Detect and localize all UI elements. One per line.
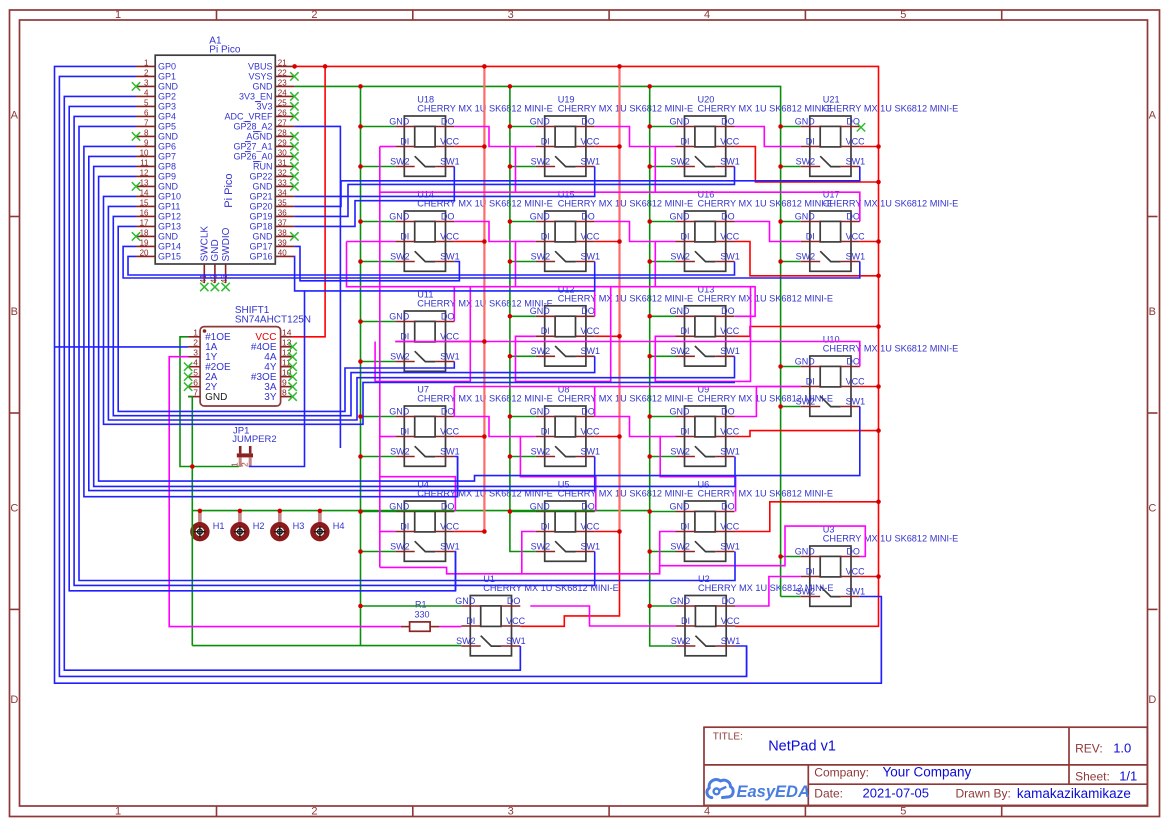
svg-text:4: 4 bbox=[193, 357, 198, 367]
svg-text:DI: DI bbox=[806, 136, 815, 146]
svg-text:TITLE:: TITLE: bbox=[713, 731, 743, 742]
wire VCC pale trunk 2 bbox=[618, 66, 620, 531]
svg-text:DI: DI bbox=[400, 426, 409, 436]
svg-text:GP4: GP4 bbox=[158, 112, 176, 122]
svg-text:GND: GND bbox=[795, 211, 816, 221]
svg-text:5: 5 bbox=[900, 806, 906, 818]
svg-text:GND: GND bbox=[530, 306, 551, 316]
svg-text:SW1: SW1 bbox=[440, 251, 460, 261]
svg-text:3: 3 bbox=[193, 347, 198, 357]
svg-text:GND: GND bbox=[158, 182, 179, 192]
svg-text:SWCLK: SWCLK bbox=[200, 226, 211, 262]
wire data U18 DI entry bbox=[380, 146, 396, 148]
svg-text:23: 23 bbox=[278, 79, 287, 88]
wire GP18 to U18 SW1 bbox=[294, 167, 454, 227]
svg-text:GND: GND bbox=[670, 116, 691, 126]
svg-text:DO: DO bbox=[722, 596, 736, 606]
svg-text:SW1: SW1 bbox=[440, 156, 460, 166]
wire VCC U6 to right trunk bbox=[735, 502, 879, 532]
switch unit U14 CHERRY MX 1U SK6812 MINI-E bbox=[389, 190, 552, 272]
switch unit U10 CHERRY MX 1U SK6812 MINI-E bbox=[795, 335, 958, 417]
wire GND stubs to switch GND and SW2 pins bbox=[361, 127, 801, 607]
wire GND mounting hole rail bbox=[192, 510, 649, 512]
svg-text:SW2: SW2 bbox=[531, 251, 551, 261]
svg-text:SW1: SW1 bbox=[581, 446, 601, 456]
svg-text:A: A bbox=[11, 110, 19, 122]
svg-text:DI: DI bbox=[541, 231, 550, 241]
wire data row2 DI hooks bbox=[516, 242, 656, 287]
svg-text:Your Company: Your Company bbox=[883, 765, 972, 780]
svg-text:1: 1 bbox=[144, 59, 149, 68]
svg-text:SW1: SW1 bbox=[721, 636, 741, 646]
resistor R1 330 bbox=[401, 600, 440, 632]
svg-text:CHERRY MX 1U SK6812 MINI-E: CHERRY MX 1U SK6812 MINI-E bbox=[698, 199, 833, 209]
svg-text:DO: DO bbox=[581, 406, 595, 416]
EasyEDA logo bbox=[707, 780, 810, 801]
svg-text:2: 2 bbox=[193, 337, 198, 347]
svg-text:SW2: SW2 bbox=[390, 446, 410, 456]
svg-text:1.0: 1.0 bbox=[1113, 740, 1131, 755]
switch unit U17 CHERRY MX 1U SK6812 MINI-E bbox=[795, 190, 958, 272]
switch unit U9 CHERRY MX 1U SK6812 MINI-E bbox=[670, 385, 833, 467]
switch unit U20 CHERRY MX 1U SK6812 MINI-E bbox=[670, 95, 833, 177]
wire data U13 DO to U14 bbox=[347, 242, 756, 317]
svg-text:H2: H2 bbox=[253, 521, 265, 531]
svg-text:2: 2 bbox=[144, 69, 149, 78]
svg-text:GND: GND bbox=[205, 392, 227, 403]
svg-text:DI: DI bbox=[400, 521, 409, 531]
wire data U2 DO to U3 DI bbox=[735, 577, 801, 607]
svg-text:GP19: GP19 bbox=[249, 212, 272, 222]
wire VCC U13 to right trunk bbox=[735, 327, 879, 337]
switch unit U5 CHERRY MX 1U SK6812 MINI-E bbox=[530, 480, 693, 562]
svg-text:DO: DO bbox=[721, 116, 735, 126]
svg-text:9: 9 bbox=[144, 139, 149, 148]
svg-text:VCC: VCC bbox=[581, 521, 601, 531]
svg-text:CHERRY MX 1U SK6812 MINI-E: CHERRY MX 1U SK6812 MINI-E bbox=[698, 104, 833, 114]
svg-text:2: 2 bbox=[240, 462, 250, 467]
svg-text:21: 21 bbox=[278, 59, 287, 68]
svg-text:DO: DO bbox=[581, 306, 595, 316]
svg-text:GP9: GP9 bbox=[158, 172, 176, 182]
svg-text:GND: GND bbox=[455, 596, 476, 606]
svg-text:SW2: SW2 bbox=[390, 251, 410, 261]
svg-text:5: 5 bbox=[900, 9, 906, 21]
svg-text:GP16: GP16 bbox=[249, 252, 272, 262]
svg-text:20: 20 bbox=[140, 249, 149, 258]
svg-text:DO: DO bbox=[507, 596, 521, 606]
svg-text:SW2: SW2 bbox=[796, 251, 816, 261]
wire GND bottom run to U1 SW2 bbox=[192, 645, 461, 647]
svg-text:VBUS: VBUS bbox=[248, 62, 273, 72]
svg-text:VCC: VCC bbox=[440, 331, 460, 341]
svg-text:GP2: GP2 bbox=[158, 92, 176, 102]
svg-text:DO: DO bbox=[581, 116, 595, 126]
svg-text:JUMPER2: JUMPER2 bbox=[232, 434, 276, 445]
svg-text:VCC: VCC bbox=[440, 521, 460, 531]
no-connect X marks on A1 bbox=[132, 72, 299, 291]
svg-text:5: 5 bbox=[144, 99, 149, 108]
svg-text:VCC: VCC bbox=[581, 136, 601, 146]
svg-text:1/1: 1/1 bbox=[1119, 769, 1137, 784]
svg-text:GP26_A0: GP26_A0 bbox=[233, 152, 272, 162]
wire U7 SW1 jog bbox=[454, 457, 457, 497]
svg-text:GND: GND bbox=[670, 306, 691, 316]
wire U1 VCC jog up to trunk 2 bbox=[520, 532, 619, 627]
svg-text:GP28_A2: GP28_A2 bbox=[233, 122, 272, 132]
svg-text:H1: H1 bbox=[213, 521, 225, 531]
svg-text:D: D bbox=[1148, 694, 1156, 706]
svg-text:SW2: SW2 bbox=[670, 156, 690, 166]
svg-text:DI: DI bbox=[400, 231, 409, 241]
switch unit U21 CHERRY MX 1U SK6812 MINI-E bbox=[795, 95, 958, 177]
svg-text:33: 33 bbox=[278, 179, 287, 188]
svg-text:CHERRY MX 1U SK6812 MINI-E: CHERRY MX 1U SK6812 MINI-E bbox=[698, 293, 833, 303]
mounting hole H1 bbox=[193, 512, 225, 539]
wire to SHIFT1 1A bbox=[55, 346, 189, 348]
wire VCC SHIFT1 pin14 bbox=[293, 66, 326, 336]
svg-text:VCC: VCC bbox=[581, 326, 601, 336]
svg-text:SW1: SW1 bbox=[720, 446, 740, 456]
svg-text:29: 29 bbox=[278, 139, 287, 148]
svg-text:2021-07-05: 2021-07-05 bbox=[863, 786, 930, 801]
svg-text:15: 15 bbox=[140, 199, 149, 208]
buffer SHIFT1 SN74AHCT125N bbox=[188, 305, 311, 406]
svg-text:3: 3 bbox=[508, 806, 514, 818]
switch unit U8 CHERRY MX 1U SK6812 MINI-E bbox=[530, 385, 693, 467]
wire data U4 DO riser bbox=[380, 477, 456, 512]
svg-text:GP13: GP13 bbox=[158, 222, 181, 232]
svg-text:1: 1 bbox=[115, 9, 121, 21]
svg-text:GND: GND bbox=[253, 182, 274, 192]
svg-text:GP5: GP5 bbox=[158, 122, 176, 132]
svg-text:SW2: SW2 bbox=[670, 446, 690, 456]
svg-text:GND: GND bbox=[253, 82, 274, 92]
switch unit U7 CHERRY MX 1U SK6812 MINI-E bbox=[389, 385, 552, 467]
wire JP1 pin2 riser bbox=[249, 291, 305, 467]
mounting hole H3 bbox=[273, 512, 305, 539]
svg-text:DI: DI bbox=[806, 231, 815, 241]
svg-text:GP14: GP14 bbox=[158, 242, 181, 252]
svg-text:SW2: SW2 bbox=[531, 156, 551, 166]
svg-text:GND: GND bbox=[530, 116, 551, 126]
svg-text:DI: DI bbox=[806, 376, 815, 386]
switch unit U12 CHERRY MX 1U SK6812 MINI-E bbox=[530, 284, 693, 366]
svg-text:7: 7 bbox=[193, 387, 198, 397]
svg-text:SW2: SW2 bbox=[670, 346, 690, 356]
wire data chains within rows bbox=[375, 127, 801, 574]
svg-text:34: 34 bbox=[278, 189, 287, 198]
svg-text:Date:: Date: bbox=[814, 786, 843, 800]
svg-text:18: 18 bbox=[140, 229, 149, 238]
svg-text:VCC: VCC bbox=[846, 566, 866, 576]
wire GP28 vertical bbox=[294, 126, 340, 448]
svg-text:30: 30 bbox=[278, 149, 287, 158]
svg-text:3: 3 bbox=[508, 9, 514, 21]
svg-text:DI: DI bbox=[681, 136, 690, 146]
svg-text:SW1: SW1 bbox=[720, 156, 740, 166]
svg-text:6: 6 bbox=[193, 377, 198, 387]
svg-text:25: 25 bbox=[278, 99, 287, 108]
svg-text:H3: H3 bbox=[293, 521, 305, 531]
svg-text:SW1: SW1 bbox=[581, 541, 601, 551]
wire data U17 DO to U18 bbox=[380, 192, 860, 221]
svg-text:VCC: VCC bbox=[720, 136, 740, 146]
svg-text:3V3: 3V3 bbox=[256, 102, 272, 112]
svg-text:C: C bbox=[1148, 503, 1156, 515]
svg-text:SW2: SW2 bbox=[531, 541, 551, 551]
svg-text:DO: DO bbox=[441, 311, 455, 321]
svg-text:2: 2 bbox=[311, 806, 317, 818]
svg-text:CHERRY MX 1U SK6812 MINI-E: CHERRY MX 1U SK6812 MINI-E bbox=[823, 534, 958, 544]
svg-text:DO: DO bbox=[846, 546, 860, 556]
svg-text:38: 38 bbox=[278, 229, 287, 238]
microcontroller A1 Pi Pico bbox=[136, 36, 294, 284]
svg-text:VCC: VCC bbox=[846, 231, 866, 241]
switch unit U18 CHERRY MX 1U SK6812 MINI-E bbox=[389, 95, 552, 177]
wire VCC U21 stub bbox=[860, 146, 879, 148]
svg-text:CHERRY MX 1U SK6812 MINI-E: CHERRY MX 1U SK6812 MINI-E bbox=[558, 293, 693, 303]
svg-text:4: 4 bbox=[704, 806, 710, 818]
svg-text:GP27_A1: GP27_A1 bbox=[233, 142, 272, 152]
wire GP20 to U21 SW1 bbox=[294, 167, 859, 207]
wire data row4 DO bus bbox=[454, 386, 801, 388]
wire U2 SW1 drop bbox=[735, 646, 747, 676]
switch unit U16 CHERRY MX 1U SK6812 MINI-E bbox=[670, 190, 833, 272]
wire data U14 DI entry bbox=[347, 241, 396, 243]
svg-text:GND: GND bbox=[389, 211, 410, 221]
svg-text:B: B bbox=[1149, 306, 1156, 318]
wire data R1 to U1 DI bbox=[439, 626, 461, 628]
svg-text:DI: DI bbox=[806, 566, 815, 576]
svg-text:SW2: SW2 bbox=[796, 156, 816, 166]
svg-text:CHERRY MX 1U SK6812 MINI-E: CHERRY MX 1U SK6812 MINI-E bbox=[698, 489, 833, 499]
svg-text:DI: DI bbox=[541, 426, 550, 436]
svg-text:SW2: SW2 bbox=[670, 251, 690, 261]
wire data U10 DO to U11 DI bbox=[395, 342, 860, 367]
switch unit U2 CHERRY MX 1U SK6812 MINI-E bbox=[670, 574, 833, 656]
svg-text:GP18: GP18 bbox=[249, 222, 272, 232]
svg-text:31: 31 bbox=[278, 159, 287, 168]
svg-text:GND: GND bbox=[670, 596, 691, 606]
svg-text:GP12: GP12 bbox=[158, 212, 181, 222]
svg-text:GP0: GP0 bbox=[158, 62, 176, 72]
wire VCC U9 to right trunk bbox=[735, 431, 879, 437]
jumper JP1 JUMPER2 bbox=[230, 426, 277, 468]
svg-text:GP15: GP15 bbox=[158, 252, 181, 262]
wire data U3 DO loop bbox=[380, 526, 866, 574]
svg-text:GND: GND bbox=[389, 116, 410, 126]
svg-text:SW2: SW2 bbox=[390, 156, 410, 166]
svg-text:CHERRY MX 1U SK6812 MINI-E: CHERRY MX 1U SK6812 MINI-E bbox=[823, 199, 958, 209]
svg-text:VCC: VCC bbox=[440, 426, 460, 436]
wire data 1Y to R1 bbox=[169, 357, 401, 627]
switch unit U13 CHERRY MX 1U SK6812 MINI-E bbox=[670, 284, 833, 366]
svg-text:14: 14 bbox=[140, 189, 149, 198]
svg-text:GP17: GP17 bbox=[249, 242, 272, 252]
svg-text:GND: GND bbox=[253, 232, 274, 242]
svg-text:SW1: SW1 bbox=[440, 446, 460, 456]
wire GP9 to U10 SW1 with jog bbox=[99, 176, 860, 481]
svg-text:SW2: SW2 bbox=[671, 636, 691, 646]
svg-text:GND: GND bbox=[389, 406, 410, 416]
wire GP14 to U17 SW1 bbox=[123, 246, 860, 278]
svg-text:VCC: VCC bbox=[581, 231, 601, 241]
svg-text:3V3_EN: 3V3_EN bbox=[239, 92, 273, 102]
svg-text:DI: DI bbox=[681, 231, 690, 241]
svg-text:12: 12 bbox=[140, 169, 149, 178]
wire GP21 to U19 SW1 bbox=[294, 167, 594, 197]
wire U3 SW1 drop bbox=[860, 597, 882, 684]
svg-text:SW1: SW1 bbox=[581, 346, 601, 356]
svg-text:13: 13 bbox=[282, 337, 292, 347]
svg-text:SW1: SW1 bbox=[440, 541, 460, 551]
svg-text:GP22: GP22 bbox=[249, 172, 272, 182]
svg-text:VCC: VCC bbox=[721, 616, 741, 626]
svg-text:EasyEDA: EasyEDA bbox=[737, 783, 810, 801]
svg-text:4: 4 bbox=[144, 89, 149, 98]
svg-text:VCC: VCC bbox=[506, 616, 526, 626]
svg-text:GND: GND bbox=[389, 311, 410, 321]
wire GND SHIFT1 pin1 loop to JP1 bbox=[180, 337, 239, 467]
svg-text:SW1: SW1 bbox=[581, 251, 601, 261]
svg-text:GP20: GP20 bbox=[249, 202, 272, 212]
wire data U9 to U10 bbox=[735, 387, 801, 417]
svg-text:CHERRY MX 1U SK6812 MINI-E: CHERRY MX 1U SK6812 MINI-E bbox=[823, 344, 958, 354]
wire VCC stubs to trunks bbox=[454, 147, 619, 532]
switch unit U1 CHERRY MX 1U SK6812 MINI-E bbox=[455, 574, 618, 656]
svg-text:Drawn By:: Drawn By: bbox=[956, 786, 1011, 800]
svg-text:14: 14 bbox=[282, 328, 292, 338]
svg-text:CHERRY MX 1U SK6812 MINI-E: CHERRY MX 1U SK6812 MINI-E bbox=[558, 394, 693, 404]
svg-text:GND: GND bbox=[158, 232, 179, 242]
svg-text:R1: R1 bbox=[415, 600, 427, 610]
svg-text:CHERRY MX 1U SK6812 MINI-E: CHERRY MX 1U SK6812 MINI-E bbox=[558, 199, 693, 209]
svg-text:SW2: SW2 bbox=[531, 446, 551, 456]
wire GP15 to U16 SW1 bbox=[128, 256, 735, 275]
switch unit U4 CHERRY MX 1U SK6812 MINI-E bbox=[389, 480, 552, 562]
switch unit U15 CHERRY MX 1U SK6812 MINI-E bbox=[530, 190, 693, 272]
no-connect X on U21 DO bbox=[857, 123, 865, 131]
svg-text:40: 40 bbox=[278, 249, 287, 258]
wires GPIO bundle to row3 SW1 pins bbox=[104, 196, 736, 424]
wire GND to U1 GND pin bbox=[361, 605, 462, 607]
svg-text:DI: DI bbox=[681, 426, 690, 436]
svg-text:GND: GND bbox=[210, 239, 221, 261]
svg-text:SW2: SW2 bbox=[390, 351, 410, 361]
svg-text:DO: DO bbox=[721, 306, 735, 316]
svg-text:8: 8 bbox=[144, 129, 149, 138]
svg-text:CHERRY MX 1U SK6812 MINI-E: CHERRY MX 1U SK6812 MINI-E bbox=[558, 104, 693, 114]
svg-text:GND: GND bbox=[530, 211, 551, 221]
svg-text:CHERRY MX 1U SK6812 MINI-E: CHERRY MX 1U SK6812 MINI-E bbox=[698, 583, 833, 593]
switch unit U6 CHERRY MX 1U SK6812 MINI-E bbox=[670, 480, 833, 562]
svg-text:GP11: GP11 bbox=[158, 202, 180, 212]
svg-text:10: 10 bbox=[140, 149, 149, 158]
svg-text:SN74AHCT125N: SN74AHCT125N bbox=[235, 315, 311, 326]
svg-text:VCC: VCC bbox=[720, 231, 740, 241]
svg-text:DO: DO bbox=[846, 356, 860, 366]
svg-text:5: 5 bbox=[193, 367, 198, 377]
svg-text:VCC: VCC bbox=[846, 376, 866, 386]
svg-text:CHERRY MX 1U SK6812 MINI-E: CHERRY MX 1U SK6812 MINI-E bbox=[483, 583, 618, 593]
wire VCC U10 stub bbox=[860, 386, 879, 388]
svg-text:GND: GND bbox=[158, 132, 179, 142]
wire GND stub to U3 SW2 bbox=[781, 596, 801, 598]
mounting hole H2 bbox=[233, 512, 265, 539]
svg-text:DI: DI bbox=[541, 521, 550, 531]
svg-text:CHERRY MX 1U SK6812 MINI-E: CHERRY MX 1U SK6812 MINI-E bbox=[823, 104, 958, 114]
svg-text:SW1: SW1 bbox=[846, 251, 866, 261]
svg-text:26: 26 bbox=[278, 109, 287, 118]
svg-text:DI: DI bbox=[541, 326, 550, 336]
svg-text:SW2: SW2 bbox=[531, 346, 551, 356]
wire VBUS rail and right trunk to U2 VCC bbox=[294, 66, 878, 626]
svg-text:VCC: VCC bbox=[720, 426, 740, 436]
svg-text:1: 1 bbox=[193, 328, 198, 338]
svg-text:DO: DO bbox=[441, 406, 455, 416]
svg-text:SW1: SW1 bbox=[720, 346, 740, 356]
svg-text:DI: DI bbox=[400, 136, 409, 146]
svg-text:H4: H4 bbox=[333, 521, 345, 531]
switch unit U11 CHERRY MX 1U SK6812 MINI-E bbox=[389, 290, 552, 372]
svg-text:8: 8 bbox=[282, 387, 287, 397]
wire GND column trunk 2 bbox=[510, 86, 536, 551]
svg-text:DI: DI bbox=[541, 136, 550, 146]
svg-text:Sheet:: Sheet: bbox=[1075, 769, 1110, 783]
svg-text:SW2: SW2 bbox=[456, 636, 476, 646]
svg-text:GND: GND bbox=[158, 82, 179, 92]
svg-text:SW2: SW2 bbox=[670, 541, 690, 551]
svg-text:SW2: SW2 bbox=[390, 541, 410, 551]
svg-text:GP6: GP6 bbox=[158, 142, 176, 152]
wire data U1 DO to U2 DI bbox=[530, 606, 676, 626]
svg-text:Pi Pico: Pi Pico bbox=[223, 173, 235, 207]
svg-text:Pi Pico: Pi Pico bbox=[209, 45, 241, 56]
svg-text:SW1: SW1 bbox=[581, 156, 601, 166]
svg-text:GND: GND bbox=[670, 406, 691, 416]
wire VCC U17 stub bbox=[860, 241, 879, 243]
svg-text:DO: DO bbox=[846, 211, 860, 221]
svg-text:6: 6 bbox=[144, 109, 149, 118]
wire GP16 to U15 SW1 bbox=[294, 256, 594, 291]
svg-text:SW1: SW1 bbox=[720, 541, 740, 551]
svg-text:DO: DO bbox=[441, 211, 455, 221]
svg-text:7: 7 bbox=[144, 119, 149, 128]
svg-text:SW1: SW1 bbox=[846, 396, 866, 406]
svg-text:GND: GND bbox=[795, 116, 816, 126]
svg-text:DI: DI bbox=[681, 326, 690, 336]
svg-text:AGND: AGND bbox=[246, 132, 273, 142]
svg-text:DO: DO bbox=[581, 211, 595, 221]
svg-text:19: 19 bbox=[140, 239, 149, 248]
svg-text:22: 22 bbox=[278, 69, 287, 78]
svg-text:DO: DO bbox=[721, 211, 735, 221]
svg-text:27: 27 bbox=[278, 119, 287, 128]
svg-text:GP7: GP7 bbox=[158, 152, 176, 162]
svg-text:ADC_VREF: ADC_VREF bbox=[224, 112, 273, 122]
wire VCC U20 to right trunk bbox=[735, 147, 879, 183]
svg-text:GP8: GP8 bbox=[158, 162, 176, 172]
svg-text:GP21: GP21 bbox=[249, 192, 272, 202]
svg-text:17: 17 bbox=[140, 219, 149, 228]
svg-text:GP3: GP3 bbox=[158, 102, 176, 112]
svg-text:VSYS: VSYS bbox=[248, 72, 272, 82]
svg-text:GND: GND bbox=[670, 501, 691, 511]
no-connect X marks on SHIFT1 bbox=[184, 343, 297, 401]
svg-text:NetPad v1: NetPad v1 bbox=[768, 739, 836, 755]
wire GND top rail from A1 pin23 bbox=[294, 86, 780, 596]
